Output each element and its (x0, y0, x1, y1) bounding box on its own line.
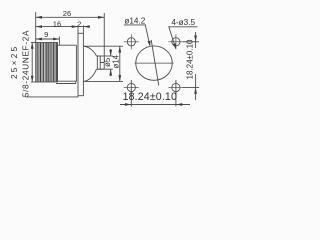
thread block outline (36, 43, 58, 83)
arrow 26 right (98, 16, 104, 19)
wire left extension line x=35.7 (35, 12, 37, 43)
hole top-left (124, 34, 139, 49)
circle horizontal centerline (135, 62, 174, 64)
arrow 2 right outside (83, 25, 89, 28)
arrow dia14 top (118, 46, 121, 52)
body outline (58, 45, 77, 81)
svg-text:26: 26 (63, 9, 71, 18)
svg-text:2: 2 (77, 19, 81, 28)
arrow 9 left (36, 38, 42, 41)
dim 9 right ext stub (58, 37, 60, 46)
thread dim line (31, 43, 33, 83)
svg-text:4-ø3.5: 4-ø3.5 (171, 18, 195, 27)
slot diagonal line (151, 40, 159, 86)
leader 4-dia3.5 shoulder (169, 27, 198, 49)
arrow right dim bottom (194, 88, 197, 94)
solder cup (97, 56, 105, 69)
hole bottom-left (124, 80, 139, 95)
right dim ext lines (183, 41, 199, 43)
knurl stripes (37, 43, 56, 82)
thread dim ext stubs (31, 42, 36, 44)
hole bottom-right (168, 80, 183, 95)
hole top-right (168, 34, 183, 49)
dia14 ext lines (84, 45, 123, 47)
leader dia14.2 underline (124, 24, 146, 26)
leader dia14.2 (145, 25, 150, 45)
dim 9 line (36, 38, 60, 40)
arrow 16 left (36, 25, 42, 28)
body lower step line (56, 81, 76, 83)
bottom dim line (120, 104, 190, 106)
arrow dia5 bottom outside (109, 69, 112, 75)
dim 16/2 line (36, 26, 90, 28)
svg-text:25×25: 25×25 (10, 45, 19, 80)
dim 26 right extension line (103, 13, 105, 62)
arrow 26 left (36, 16, 42, 19)
arrow leader 4-dia3.5 (173, 43, 176, 48)
svg-text:16: 16 (53, 19, 61, 28)
dia5 ext lines (98, 55, 113, 57)
svg-text:ø14: ø14 (112, 54, 121, 68)
svg-text:9: 9 (44, 30, 48, 39)
arrow 9 right (53, 38, 59, 41)
bottom dim ext lines (130, 92, 132, 107)
arrow thread dim bottom (31, 76, 34, 82)
front view big circle (136, 46, 173, 80)
svg-text:18.24±0.10: 18.24±0.10 (123, 91, 177, 103)
dia14 dim line (119, 46, 121, 81)
dim 26 line (36, 16, 105, 18)
arrow 16 right / 2 left (72, 25, 78, 28)
svg-text:5/8-24UNEF-2A: 5/8-24UNEF-2A (21, 30, 30, 97)
svg-text:ø14.2: ø14.2 (124, 16, 145, 25)
flange callout leader line (26, 96, 79, 97)
flange top dim extension lines (77, 25, 79, 33)
dia5 dim stubs outside (110, 49, 112, 56)
cone rear boss (83, 46, 96, 81)
arrow bottom dim right (176, 103, 182, 106)
svg-text:18.24±0.10: 18.24±0.10 (185, 39, 194, 80)
arrow thread dim top (31, 43, 34, 49)
arrow leader dia14.2 (147, 41, 150, 47)
arrow right dim top (194, 36, 197, 42)
arrow dia5 top outside (109, 50, 112, 56)
flange rect (78, 33, 83, 95)
arrow bottom dim left (125, 103, 131, 106)
right dim line (195, 32, 197, 48)
arrow dia14 bottom (118, 75, 121, 81)
